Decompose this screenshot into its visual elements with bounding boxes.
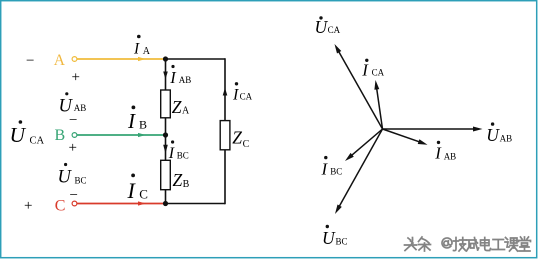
phasor U_CA vector: [335, 44, 383, 129]
phasor label I_AB: [434, 141, 456, 163]
svg-text:CA: CA: [240, 92, 253, 102]
impedance Z_C: [220, 121, 249, 150]
phasor label I_BC: [321, 156, 343, 178]
wire B (green phase line): [77, 133, 166, 137]
watermark char 成: [467, 238, 479, 252]
junction node at A line: [163, 56, 168, 61]
svg-text:I: I: [321, 159, 329, 178]
svg-text:AB: AB: [74, 103, 87, 113]
phasor I_BC vector: [345, 129, 383, 161]
label I_CA: [232, 82, 253, 103]
label I_AB: [169, 65, 191, 87]
svg-text:U: U: [486, 125, 500, 145]
svg-text:U: U: [58, 167, 73, 187]
watermark char 电: [481, 238, 491, 251]
phasor label I_CA: [361, 59, 384, 80]
svg-text:CA: CA: [372, 67, 385, 77]
svg-text:BC: BC: [177, 151, 189, 161]
svg-text:U: U: [315, 17, 329, 37]
svg-text:C: C: [55, 197, 66, 214]
current arrow I_BC on middle branch: [163, 145, 168, 154]
label U_AB voltage: [59, 92, 87, 116]
svg-text:C: C: [139, 187, 148, 202]
phasor label U_CA: [315, 16, 341, 37]
label I_A current: [133, 35, 151, 58]
junction node at B line: [163, 132, 168, 137]
svg-text:A: A: [182, 106, 190, 117]
svg-text:BC: BC: [75, 175, 87, 185]
svg-text:B: B: [183, 179, 190, 190]
current arrow I_CA on right branch (up): [223, 88, 228, 96]
svg-text:CA: CA: [30, 135, 45, 146]
svg-text:I: I: [127, 178, 137, 203]
wire right branch vertical: [224, 58, 226, 204]
impedance Z_A: [161, 90, 190, 118]
svg-text:A: A: [54, 52, 66, 69]
node C terminal: [72, 201, 77, 206]
impedance Z_B: [161, 160, 190, 190]
wire A (yellow phase line): [77, 57, 166, 61]
current arrow I_AB on middle branch: [163, 72, 168, 80]
label I_BC: [168, 140, 189, 162]
watermark char 工: [492, 240, 505, 250]
svg-text:Z: Z: [172, 97, 182, 117]
svg-text:I: I: [361, 60, 369, 79]
svg-text:AB: AB: [500, 134, 513, 144]
label U_BC voltage: [58, 163, 87, 187]
svg-text:I: I: [127, 109, 136, 133]
svg-text:U: U: [322, 228, 336, 248]
svg-text:I: I: [434, 144, 442, 163]
svg-text:−: −: [69, 113, 77, 129]
svg-text:Z: Z: [173, 170, 183, 190]
svg-text:AB: AB: [444, 151, 457, 161]
svg-text:A: A: [143, 46, 151, 57]
svg-text:B: B: [55, 127, 66, 144]
wire middle vertical A-junction to B-junction: [165, 59, 167, 135]
svg-text:I: I: [232, 86, 239, 103]
label I_B current: [127, 106, 147, 134]
svg-text:+: +: [69, 140, 77, 156]
watermark char @: [442, 238, 452, 248]
svg-text:U: U: [10, 123, 27, 147]
label I_C current: [127, 174, 148, 204]
watermark char 堂: [519, 237, 531, 251]
phasor U_BC vector: [335, 129, 383, 214]
wire C (red phase line): [77, 201, 166, 205]
junction node at C line: [163, 201, 168, 206]
svg-text:B: B: [139, 118, 147, 132]
svg-text:BC: BC: [336, 236, 348, 246]
phasor I_AB vector: [383, 129, 428, 145]
svg-text:I: I: [133, 41, 140, 58]
svg-text:−: −: [26, 53, 34, 69]
watermark char 课: [505, 238, 518, 252]
watermark char 技: [454, 238, 467, 252]
phasor I_CA vector: [374, 80, 382, 129]
wire middle vertical B-junction to C-junction: [165, 135, 167, 204]
svg-text:Z: Z: [232, 127, 242, 147]
svg-text:+: +: [72, 70, 80, 86]
node B terminal: [72, 133, 77, 138]
wire bottom black segment C-junction to right branch: [166, 203, 226, 205]
wire top black segment A-junction to right branch: [166, 58, 226, 60]
svg-text:+: +: [24, 198, 32, 214]
watermark char 条: [419, 237, 431, 251]
label U_CA line voltage (big, far left): [10, 120, 45, 147]
watermark char 头: [405, 238, 417, 251]
phasor U_AB vector: [383, 127, 483, 132]
svg-text:BC: BC: [330, 167, 342, 177]
node A terminal: [72, 57, 77, 62]
svg-text:C: C: [243, 139, 250, 150]
phasor label U_BC: [322, 225, 348, 248]
watermark sketch 头条@技成电工课堂: [405, 237, 531, 251]
svg-text:I: I: [169, 68, 177, 87]
svg-text:CA: CA: [328, 25, 341, 35]
svg-text:AB: AB: [179, 75, 192, 85]
phasor label U_AB: [486, 122, 512, 144]
